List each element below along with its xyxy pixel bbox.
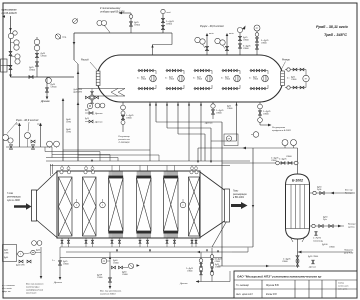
instrument right of drum — [303, 75, 309, 81]
svg-text:СЛ600: СЛ600 — [253, 79, 258, 81]
svg-text:конденсат: конденсат — [26, 292, 37, 295]
valve on drop x123 — [121, 115, 124, 119]
svg-text:СЛ600: СЛ600 — [169, 79, 174, 81]
instrument pair with leader — [97, 20, 102, 25]
reactor module 5 — [164, 178, 179, 231]
instrument near x251 — [253, 132, 259, 138]
title block col line 5 — [335, 280, 337, 298]
svg-text:Ду40: Ду40 — [36, 250, 40, 252]
valve V3b on riser2 — [35, 62, 38, 66]
svg-text:Рраб - 38,11 кгс/с: Рраб - 38,11 кгс/с — [316, 25, 349, 29]
svg-text:Траб - 348°С: Траб - 348°С — [324, 33, 347, 37]
svg-text:СЛ600: СЛ600 — [134, 25, 141, 27]
svg-text:СЛ600: СЛ600 — [187, 271, 192, 273]
arrow up on downcomer 2 — [77, 71, 80, 74]
instrument at riser x131 top — [129, 15, 133, 19]
svg-text:СЛ600: СЛ600 — [41, 56, 48, 58]
valve drain x213 — [211, 110, 214, 114]
svg-text:т.ч. система: т.ч. система — [2, 285, 16, 287]
valve V2 on riser — [9, 65, 12, 69]
svg-text:Ду25 СЛ600: Ду25 СЛ600 — [308, 256, 318, 258]
wire: riser reactor-drum 1 — [149, 102, 151, 161]
reactor top header line 1 — [50, 165, 230, 167]
valve row below box a — [19, 260, 23, 263]
svg-text:СЛ600: СЛ600 — [51, 87, 58, 89]
wire: drop x213 drain — [212, 102, 214, 119]
instrument on drop x260 a — [258, 104, 263, 109]
side drain valve — [312, 260, 315, 264]
svg-text:3 х: 3 х — [193, 77, 195, 79]
instrument on riser2 b — [34, 45, 40, 51]
svg-text:Ду40 СЛ96: Ду40 СЛ96 — [16, 265, 25, 267]
instrument pair PI-2 — [14, 40, 19, 45]
wire: bundle line 2 — [52, 154, 110, 156]
svg-text:Вод. пар: Вод. пар — [345, 189, 353, 192]
svg-text:СЛ600: СЛ600 — [215, 266, 220, 268]
svg-text:Дренаж: Дренаж — [53, 282, 62, 284]
wire: left riser 2 — [36, 37, 38, 77]
wire: drop x222 — [221, 122, 223, 266]
svg-text:Р-1001/4,8: Р-1001/4,8 — [119, 141, 130, 144]
svg-text:СЛ600: СЛ600 — [215, 261, 220, 263]
title block row line 2 — [234, 288, 357, 290]
inlet thick arrow — [14, 203, 32, 210]
wire: riser staircase 3 — [166, 102, 168, 128]
svg-text:Резерв: Резерв — [282, 60, 290, 62]
svg-text:самофбрикатный: самофбрикатный — [26, 289, 44, 292]
arrow column right top — [331, 192, 335, 195]
svg-text:Ду40: Ду40 — [4, 257, 8, 259]
wire: bundle line 0 — [63, 149, 150, 151]
instrument pair bottom left — [3, 135, 9, 141]
valve on header y77 — [29, 76, 33, 79]
svg-text:СЛ600: СЛ600 — [261, 43, 267, 45]
reactor outlet plate — [225, 189, 230, 222]
arrow drain — [46, 97, 49, 100]
reactor module 4 — [137, 178, 152, 231]
reactor inlet plate — [32, 190, 37, 221]
wire: bundle vert b — [44, 147, 46, 152]
svg-text:СЛ400: СЛ400 — [122, 274, 128, 276]
svg-text:Г-/газ: Г-/газ — [7, 193, 13, 195]
wire: column bottom outlet — [297, 239, 299, 268]
svg-text:Ант. цеха №13: Ант. цеха №13 — [235, 293, 253, 296]
arrow down on riser — [9, 28, 12, 31]
stack on x212 — [210, 255, 214, 259]
wire: bundle line 4 — [78, 154, 159, 156]
wire: to regulator flag — [260, 124, 268, 126]
svg-text:Газы: Газы — [233, 191, 238, 193]
wire: box link — [17, 253, 19, 255]
drum internal spray group 2 — [166, 70, 185, 72]
svg-text:СЛ600: СЛ600 — [286, 156, 292, 158]
reactor module top stubs with sight circles — [61, 166, 63, 172]
svg-text:сум № 2000: сум № 2000 — [7, 199, 20, 202]
wire: bundle vert a — [51, 147, 53, 158]
wire: header y33 — [74, 32, 163, 34]
wire: drop x212 — [211, 248, 213, 282]
svg-text:Вод. пар средн/высок.: Вод. пар средн/высок. — [100, 290, 122, 293]
instrument at x240 — [237, 27, 242, 32]
title block col line 1 — [261, 280, 263, 298]
svg-text:регенерации: регенерации — [232, 194, 248, 196]
valve column right mid2 — [329, 224, 333, 227]
svg-text:3 х: 3 х — [137, 77, 139, 79]
reactor right cone top — [200, 172, 225, 190]
wire: bundle line 3 — [46, 157, 118, 159]
svg-text:Ду40: Ду40 — [4, 250, 8, 252]
instrument on riser2 a — [34, 39, 40, 45]
valve column right top — [313, 191, 316, 194]
instrument TI between modules 1-2 — [74, 202, 80, 208]
instrument PT at x257 — [254, 25, 260, 31]
instrument TI between modules 5-6 — [180, 202, 186, 208]
wire: bundle vert c — [99, 152, 101, 162]
arrow into header — [91, 160, 93, 162]
svg-text:СЛ600: СЛ600 — [63, 264, 69, 266]
wire: riser x236 — [236, 102, 238, 141]
instrument on drop x123 b — [121, 121, 125, 125]
valve row right of drum bottom — [285, 87, 306, 89]
instrument mid bottom left — [25, 133, 31, 139]
svg-text:конд: конд — [167, 11, 171, 14]
wire: drop x201 — [200, 252, 202, 282]
title block col line 3 — [308, 280, 310, 298]
svg-text:давления Ду и: давления Ду и — [26, 286, 40, 289]
svg-text:СЛ600: СЛ600 — [227, 108, 232, 110]
instrument pair above y148 — [282, 140, 288, 146]
svg-text:Якушев В.В.: Якушев В.В. — [265, 285, 280, 287]
instrument on drain x213 — [211, 104, 215, 108]
reactor bottom collector 2 — [66, 251, 232, 253]
title block col line 2 — [294, 280, 296, 298]
svg-text:СЛ96: СЛ96 — [4, 253, 8, 255]
svg-text:Расход: Расход — [81, 59, 89, 62]
svg-text:Косан Р.И.: Косан Р.И. — [266, 294, 277, 296]
instrument pair above — [32, 241, 37, 246]
valve on header left a — [9, 145, 12, 149]
valves on riser x257 — [255, 38, 258, 42]
svg-text:Фракция: Фракция — [345, 192, 353, 195]
wire: drop x110 — [109, 252, 111, 287]
reactor left cone bottom — [37, 220, 58, 238]
wire: column right outlet mid — [310, 225, 345, 227]
wire: column bottom right line — [298, 251, 353, 253]
wire: column right outlet top — [310, 192, 356, 194]
wire: line y141 — [211, 140, 237, 142]
reactor left cone top — [37, 172, 58, 192]
svg-text:ОАО "Мозырский НПЗ" установка: ОАО "Мозырский НПЗ" установка каталитиче… — [237, 275, 321, 279]
wire: drop x41 with arrow — [40, 247, 42, 277]
valve drop x60 — [58, 261, 61, 265]
svg-text:СЛ600: СЛ600 — [197, 79, 202, 81]
valve column right mid — [312, 224, 315, 227]
valve on column drain 2 — [296, 262, 299, 266]
svg-text:2 х: 2 х — [52, 260, 55, 262]
valve drain left below drum b — [89, 120, 93, 123]
wire: riser staircase 2 — [155, 102, 157, 122]
svg-text:СЛ600: СЛ600 — [263, 114, 269, 116]
wire: water riser left 1 — [19, 126, 21, 147]
svg-text:суд В-100х/б: суд В-100х/б — [2, 11, 18, 15]
column E-1002 shell — [286, 174, 310, 239]
svg-text:напол. уст.: напол. уст. — [338, 286, 349, 288]
wire: bundle vert e — [117, 158, 119, 162]
valve row right of drum top — [285, 69, 306, 71]
left border flag box 1 — [1, 59, 8, 72]
instrument pair bottom left 2 — [47, 141, 53, 147]
svg-text:давления №013: давления №013 — [100, 293, 116, 296]
wire: header y148 to column — [198, 147, 298, 149]
svg-text:профрам в Б-1001: профрам в Б-1001 — [272, 129, 292, 132]
instrument PI-1 — [8, 33, 13, 38]
drum right nozzle ladder flange — [281, 71, 285, 86]
svg-text:ум м Р-10: ум м Р-10 — [343, 253, 354, 255]
svg-text:кат. крек.: кат. крек. — [338, 289, 348, 291]
wire: collector ext y247 — [226, 246, 253, 248]
instrument at header end — [46, 78, 52, 84]
svg-text:Дренаж: Дренаж — [94, 113, 103, 115]
wire: bundle vert d — [109, 155, 111, 162]
drum internal spray group 5 — [250, 70, 269, 72]
title block col line 4 — [321, 280, 323, 298]
svg-text:Регулировка: Регулировка — [272, 127, 286, 129]
arrow drain x60 — [59, 277, 62, 280]
instrument dot circle — [31, 250, 35, 254]
drum internal spray group 3 — [194, 70, 213, 72]
svg-text:Полупрод.: Полупрод. — [344, 249, 354, 252]
arrow down on downcomer — [73, 42, 76, 45]
instrument TI between modules 2-3 — [100, 202, 106, 208]
label svezhevozd — [315, 232, 318, 236]
wire: riser staircase 4 — [177, 102, 179, 134]
svg-text:Фракция: Фракция — [348, 223, 356, 226]
svg-text:3 х: 3 х — [165, 77, 167, 79]
arrow column right mid — [338, 225, 342, 228]
svg-text:4 х: 4 х — [287, 78, 289, 80]
svg-text:СЛ600: СЛ600 — [216, 113, 222, 115]
svg-text:Ду100: Ду100 — [322, 244, 327, 246]
svg-text:Дренаж: Дренаж — [308, 267, 317, 269]
column internal tubes — [290, 185, 292, 229]
wire: water riser 2 — [226, 36, 228, 55]
valve row below box b — [27, 260, 31, 263]
wire: collector ext y252 — [232, 251, 248, 253]
svg-text:офкр. кт: офкр. кт — [2, 290, 11, 293]
svg-text:регенерации: регенерации — [6, 196, 22, 198]
svg-text:щелочи: щелочи — [348, 227, 356, 229]
svg-text:СЛ600: СЛ600 — [225, 79, 230, 81]
svg-text:СЛ600: СЛ600 — [126, 118, 132, 120]
svg-text:Дренаж: Дренаж — [40, 100, 50, 103]
valve on column drain — [296, 256, 299, 260]
valve V3 on riser2 — [35, 53, 38, 57]
valve drain left below drum a — [89, 112, 93, 115]
svg-text:СЛ400: СЛ400 — [113, 263, 119, 265]
svg-text:СЛ600: СЛ600 — [243, 48, 249, 50]
reactor right cone bottom — [200, 221, 225, 238]
svg-text:Ду40 СЛ96: Ду40 СЛ96 — [74, 91, 83, 93]
wire: riser x131 with valve — [130, 13, 132, 33]
instrument PR x104 — [101, 258, 107, 264]
reactor top header line 2 — [46, 160, 250, 162]
valve V8 — [225, 46, 228, 50]
instrument on drop x260 b — [258, 118, 263, 123]
svg-text:Вод. пар высокого: Вод. пар высокого — [26, 283, 44, 286]
drum feed band pipe — [78, 88, 125, 90]
stack on x201 — [199, 259, 203, 263]
wire: riser x163 — [162, 13, 164, 33]
instrument pair near riser1 — [195, 37, 200, 42]
instrument on drop x123 — [121, 105, 126, 110]
wire: collector drops — [59, 247, 61, 258]
svg-text:СЛ400: СЛ400 — [97, 277, 102, 279]
svg-text:в ВО-1001: в ВО-1001 — [233, 197, 245, 199]
arrow down drop x110 — [109, 286, 112, 289]
wire: downcomer x63 — [62, 100, 64, 161]
svg-text:Гл. инженер: Гл. инженер — [236, 285, 250, 287]
valve row to column — [276, 162, 299, 164]
reactor R-1001 body — [57, 171, 200, 238]
wire: left header y77 — [11, 76, 75, 78]
wire: line into column upper left — [222, 162, 276, 164]
drum left nozzle ladder flange — [96, 71, 100, 86]
svg-text:2 х Ру/95: 2 х Ру/95 — [313, 238, 321, 240]
wire: bundle line 1 — [45, 151, 100, 153]
valve on drop x110 — [108, 278, 111, 282]
wire: top-left riser — [10, 16, 12, 77]
svg-text:СЛ600: СЛ600 — [282, 261, 288, 263]
svg-text:Дренаж: Дренаж — [179, 283, 188, 285]
svg-text:Рцех - 40,9 кгс/см²: Рцех - 40,9 кгс/см² — [16, 118, 38, 122]
reactor module 3 — [109, 178, 124, 231]
wire: water riser left 2 — [40, 126, 42, 147]
column bottom skirt — [290, 237, 293, 243]
wire: drop x123 from drum — [122, 102, 124, 132]
instrument in box below drum — [224, 134, 238, 146]
instrument pair near riser2 — [215, 38, 220, 43]
svg-text:Ру96: Ру96 — [317, 189, 321, 191]
svg-text:СЛ600: СЛ600 — [141, 79, 146, 81]
drum left flange leader — [90, 62, 98, 71]
wire: drain line y281 — [196, 281, 230, 283]
reactor module 1 — [59, 177, 73, 236]
check valve circle x131 — [128, 263, 133, 268]
svg-text:СЛ600: СЛ600 — [271, 160, 277, 162]
valve V6 — [161, 18, 164, 22]
reactor bottom collector 1 — [60, 246, 226, 248]
drum internal spray group 4 — [222, 70, 241, 72]
valve on header left b — [31, 140, 35, 143]
arrow down on riser 2 — [9, 75, 12, 78]
wire: column top riser — [297, 148, 299, 174]
wire: riser x240 — [239, 32, 241, 55]
instrument circle top — [73, 19, 78, 24]
reactor module 2 — [83, 177, 97, 236]
instrument T circle — [18, 251, 24, 257]
svg-text:Рцирк - 46,9 кгс/см²: Рцирк - 46,9 кгс/см² — [200, 24, 224, 28]
wire: cone diagonal drain — [212, 222, 227, 248]
column tube sheet bottom — [286, 228, 309, 230]
valve V9a — [238, 36, 241, 40]
wire: drain branch — [46, 77, 48, 97]
svg-text:расхода см: расхода см — [117, 138, 130, 141]
svg-text:СЛ600: СЛ600 — [291, 79, 296, 81]
valve V1 on riser — [9, 51, 12, 55]
instrument at riser x163 — [161, 9, 165, 13]
wire: flag to riser — [7, 65, 11, 67]
svg-text:СЛ600: СЛ600 — [243, 40, 249, 42]
svg-text:Е-1002: Е-1002 — [292, 179, 303, 183]
wire: left downcomer x74 — [73, 33, 75, 60]
valve V5 — [129, 22, 132, 26]
svg-text:СЛ600: СЛ600 — [329, 247, 335, 249]
valve row y267 — [112, 266, 116, 269]
svg-text:СЛ600: СЛ600 — [166, 24, 173, 26]
svg-text:Свежевозд.: Свежевозд. — [313, 240, 324, 242]
svg-text:Дренаж: Дренаж — [94, 122, 103, 124]
svg-text:Ру/в: Ру/в — [323, 219, 327, 221]
valve V7 — [205, 46, 208, 50]
control valve manifold near drum — [91, 89, 93, 94]
wire: bundle stubs into reactor top-left — [50, 164, 52, 176]
wire: drain line y266 — [218, 265, 295, 267]
svg-text:3 х: 3 х — [249, 77, 251, 79]
svg-text:2 х Ду25: 2 х Ду25 — [279, 159, 286, 161]
reactor bottom collector 3 — [60, 257, 222, 259]
svg-text:Ду25: Ду25 — [85, 118, 89, 120]
wire: riser reactor-drum 6 — [200, 102, 202, 161]
wire: left header y147 — [6, 146, 52, 148]
svg-text:Регулятор: Регулятор — [118, 136, 130, 138]
utility box bottom left — [3, 245, 17, 262]
svg-text:л/а и жидк.: л/а и жидк. — [1, 287, 13, 290]
valve V4 drain — [45, 88, 48, 92]
svg-text:3 х: 3 х — [221, 77, 223, 79]
valve V9b — [238, 44, 241, 48]
outlet thick arrow — [231, 202, 248, 209]
column tube sheet top — [286, 184, 309, 186]
title block outer — [234, 271, 357, 298]
collector down arrows — [116, 250, 118, 253]
wire: drop x60 drain — [59, 258, 61, 279]
instrument pair PI-3 — [15, 54, 20, 59]
title block row line 1 — [234, 279, 357, 281]
drum internal spray group 1 — [138, 70, 157, 72]
reactor module 6 — [189, 177, 200, 236]
svg-text:Схема: Схема — [338, 283, 345, 285]
reactor module bottom legs with valves — [61, 238, 63, 247]
wire: water riser 1 — [206, 36, 208, 55]
wire: drum top dogleg — [152, 45, 154, 58]
arrow to boiler — [119, 12, 123, 15]
wire: riser x257 — [256, 31, 258, 55]
wire: x253 drop — [252, 148, 254, 247]
svg-text:Дренаж: Дренаж — [204, 123, 213, 125]
instrument below manifold — [90, 103, 91, 105]
wire: drop x260 from drum — [259, 102, 261, 125]
svg-text:СЛ600: СЛ600 — [29, 70, 36, 72]
vessel E-1001 drum shell — [97, 55, 283, 102]
check valve circle — [55, 34, 60, 39]
wire: riser reactor-drum 5 — [188, 102, 190, 161]
svg-text:Ду25: Ду25 — [85, 110, 89, 112]
valve on drop x260 — [258, 111, 261, 115]
